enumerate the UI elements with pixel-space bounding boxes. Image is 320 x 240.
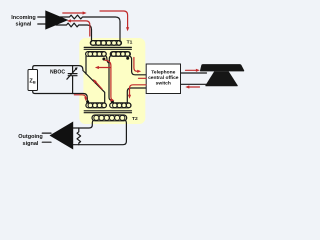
svg-text:Outgoing: Outgoing	[18, 134, 42, 140]
svg-text:switch: switch	[156, 81, 171, 87]
svg-text:Telephone: Telephone	[151, 69, 175, 75]
svg-text:T1: T1	[127, 39, 133, 45]
svg-text:T2: T2	[132, 116, 138, 122]
svg-text:Incoming: Incoming	[11, 15, 35, 21]
svg-text:signal: signal	[23, 141, 39, 147]
svg-text:NBOC: NBOC	[50, 69, 65, 75]
svg-text:central office: central office	[148, 75, 179, 81]
svg-text:ZB: ZB	[29, 79, 35, 85]
svg-text:signal: signal	[16, 22, 32, 28]
